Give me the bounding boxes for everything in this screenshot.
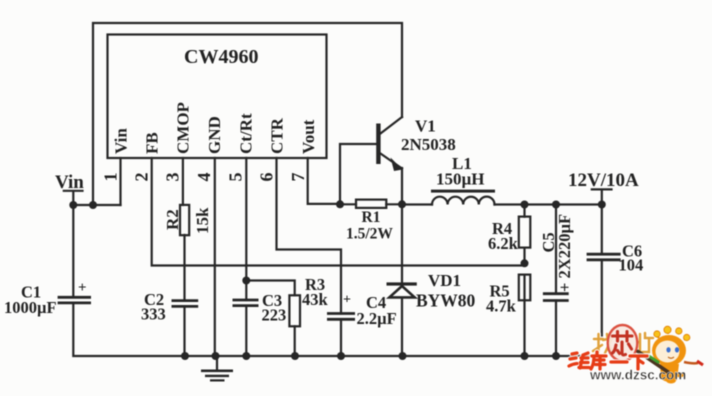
svg-text:VD1: VD1 [428, 271, 461, 290]
svg-text:Vout: Vout [299, 119, 318, 154]
svg-text:Vin: Vin [112, 128, 131, 154]
svg-text:+ 2X220µF: + 2X220µF [555, 214, 574, 292]
svg-text:R2: R2 [163, 209, 182, 230]
svg-text:4: 4 [194, 173, 214, 182]
svg-text:2.2µF: 2.2µF [357, 309, 397, 328]
svg-text:2: 2 [132, 173, 152, 182]
svg-text:150µH: 150µH [436, 170, 485, 189]
svg-text:1000µF: 1000µF [4, 298, 57, 317]
svg-text:Vin: Vin [55, 172, 84, 193]
svg-text:12V/10A: 12V/10A [568, 170, 639, 191]
svg-text:+: + [78, 280, 87, 296]
svg-text:2N5038: 2N5038 [401, 135, 456, 154]
svg-text:43k: 43k [302, 290, 329, 309]
svg-text:223: 223 [262, 306, 287, 325]
svg-text:www.dzsc.com: www.dzsc.com [589, 368, 686, 383]
svg-text:R1: R1 [362, 209, 381, 226]
svg-text:GND: GND [205, 116, 224, 154]
svg-text:6.2k: 6.2k [488, 234, 519, 253]
svg-text:6: 6 [257, 173, 277, 182]
svg-text:CW4960: CW4960 [184, 46, 258, 68]
svg-text:1.5/2W: 1.5/2W [346, 226, 393, 243]
svg-text:4.7k: 4.7k [486, 297, 517, 316]
svg-text:104: 104 [619, 256, 644, 275]
svg-text:CTR: CTR [268, 117, 287, 154]
svg-text:+: + [343, 293, 351, 308]
svg-text:CMOP: CMOP [174, 102, 193, 154]
svg-text:5: 5 [226, 173, 246, 182]
svg-text:Ct/Rt: Ct/Rt [237, 113, 256, 154]
svg-text:1: 1 [101, 173, 121, 182]
svg-text:FB: FB [143, 132, 162, 154]
svg-text:BYW80: BYW80 [416, 291, 476, 311]
svg-text:V1: V1 [415, 117, 436, 136]
svg-text:15k: 15k [193, 207, 212, 234]
svg-text:333: 333 [141, 305, 166, 324]
svg-text:3: 3 [163, 173, 183, 182]
svg-text:7: 7 [288, 173, 308, 182]
